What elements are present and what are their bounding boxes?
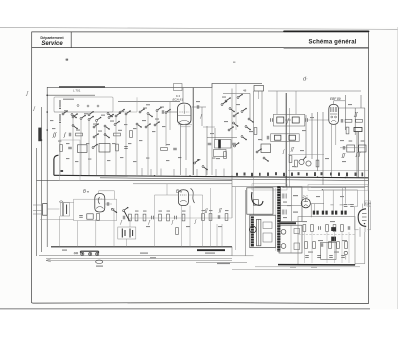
resistor R16	[43, 204, 48, 216]
contact S9b	[202, 166, 208, 171]
resistor R3	[60, 145, 63, 152]
capacitor C34	[329, 256, 333, 258]
switch lever K1	[59, 100, 61, 109]
wire V6 pins	[360, 204, 365, 237]
wire vert 236	[235, 84, 237, 130]
capacitor C28	[350, 205, 354, 207]
fuse F1	[281, 229, 286, 234]
selector rect2	[294, 243, 300, 250]
resistor R35	[337, 242, 340, 249]
motor windings right	[257, 219, 261, 246]
tube V6 envelope	[358, 209, 366, 227]
fuse F2	[281, 244, 286, 249]
tube V4 bracket	[191, 189, 195, 204]
transformer T5 primary dark	[331, 227, 336, 231]
node psu	[322, 189, 323, 190]
T4 winding ticks	[282, 194, 286, 215]
wire sw verticals left	[60, 115, 126, 175]
tick leads above bus	[142, 168, 224, 176]
capacitor C36 box	[61, 203, 70, 217]
wire heater	[311, 204, 352, 218]
wire vert 253.5b	[253, 160, 255, 215]
module box A1	[74, 199, 117, 220]
electrolytic bank box	[118, 227, 136, 239]
padder block	[261, 144, 271, 153]
resistor R32	[305, 242, 308, 249]
T4 label smudges	[283, 195, 298, 218]
contact S7f	[228, 126, 234, 131]
node F	[189, 175, 191, 177]
inner box line	[326, 242, 328, 259]
block frame	[298, 217, 355, 265]
wire V2 top	[334, 101, 345, 105]
node B	[46, 111, 48, 113]
border frame	[32, 32, 369, 304]
tube V6 grids	[362, 214, 367, 225]
choke CH2	[322, 211, 328, 215]
capacitor C18 electrolytic	[63, 203, 67, 217]
contact S5b	[104, 134, 110, 139]
tube V2 electrodes	[330, 107, 337, 122]
wire osc hline	[203, 126, 215, 128]
tube V1 envelope	[177, 103, 191, 125]
capacitor C24	[175, 216, 177, 220]
contact S7k	[248, 118, 254, 123]
capacitor C25	[218, 215, 220, 219]
capacitor C33	[317, 256, 321, 258]
coil L5 dark	[354, 128, 362, 132]
header right thick rule	[284, 30, 369, 32]
contact S7j	[234, 142, 240, 147]
node C	[46, 129, 48, 131]
resistor R1	[76, 133, 83, 136]
tiny marks mid	[166, 97, 262, 160]
capacitor C32	[305, 256, 309, 258]
svg-text:ʃʃ: ʃʃ	[354, 112, 358, 118]
wire top small box B1	[254, 86, 264, 92]
capacitor C11	[232, 143, 236, 145]
label box mid	[252, 184, 287, 190]
tube V3 cathode	[96, 197, 103, 209]
wire mid coupling	[99, 191, 130, 227]
box osc2	[214, 150, 227, 157]
pre-bus component row	[236, 172, 363, 176]
contact S2d	[114, 121, 120, 126]
wire block dash	[299, 234, 355, 236]
coil L9 dark	[38, 128, 41, 142]
socket J0	[74, 252, 78, 254]
selector divider	[290, 225, 292, 253]
V6 label box	[365, 201, 371, 206]
resistor R21	[159, 214, 162, 221]
resistor R6	[116, 144, 119, 151]
contact S8a	[123, 207, 129, 212]
wire osc v2	[211, 83, 213, 175]
tube V2 envelope	[329, 104, 339, 124]
resistor R37	[254, 128, 257, 135]
contact S10a	[256, 148, 262, 153]
motor circle	[249, 226, 256, 233]
resistor R7	[224, 152, 227, 159]
contact S4c	[154, 121, 160, 126]
contact S7l	[221, 101, 227, 106]
tiny marks right	[292, 104, 352, 167]
shield box	[60, 140, 81, 181]
wire det horiz	[340, 147, 365, 149]
node A	[46, 94, 48, 96]
capacitor C17	[343, 146, 345, 150]
top coil box	[174, 84, 183, 91]
T1 primary	[277, 117, 284, 123]
svg-text:Département: Département	[40, 36, 64, 40]
label row tiny marks	[64, 104, 164, 144]
node I	[317, 176, 319, 178]
resistor R19	[135, 214, 138, 221]
contact S7i	[233, 122, 239, 127]
resistor R14	[316, 160, 319, 167]
tube base lines	[178, 125, 192, 127]
svg-text:48: 48	[243, 89, 247, 93]
capacitor C13	[271, 118, 273, 122]
switch frame S1 top	[54, 97, 113, 112]
mains transformer T4 primary bar	[277, 186, 280, 251]
wire right edge	[355, 177, 365, 264]
motor terminal2	[263, 233, 272, 242]
page top edge	[0, 27, 398, 29]
capacitor C22	[130, 229, 133, 238]
capacitor C29	[319, 226, 321, 230]
wire osc vertical dark	[192, 88, 194, 175]
resistor R9	[345, 119, 352, 122]
transformer T5 secondary dark	[331, 237, 336, 242]
capacitor C14	[306, 118, 308, 122]
resistor R11	[347, 145, 355, 152]
svg-text:Schéma général: Schéma général	[308, 40, 356, 46]
connector bar	[81, 251, 99, 253]
input jack cluster	[33, 205, 42, 214]
volume pot P1	[299, 159, 304, 164]
pickup arm	[252, 192, 263, 205]
block top label box	[308, 185, 368, 191]
contact S9a	[194, 159, 200, 164]
speck	[233, 62, 235, 63]
pilot lamp LP1	[344, 251, 347, 254]
page bottom edge	[0, 308, 370, 310]
capacitor C9	[197, 105, 199, 109]
contact S1f	[115, 112, 121, 117]
contact S2c	[104, 125, 110, 130]
capacitor C35	[341, 256, 345, 258]
motor winding inner	[258, 219, 260, 246]
contact S5a	[93, 133, 99, 138]
label box mid smudge	[255, 186, 285, 187]
contact S3d	[165, 109, 171, 114]
capacitor C3	[68, 147, 72, 149]
selector box	[279, 225, 302, 253]
volume pot P2	[306, 161, 311, 166]
wire left vertical 2	[41, 107, 43, 252]
contact S0a	[62, 110, 68, 115]
contact S1g	[125, 110, 131, 115]
svg-text:Service: Service	[41, 41, 63, 47]
resistor R31	[341, 225, 344, 232]
osc cluster lines	[207, 126, 237, 175]
T1 arrows	[285, 118, 291, 125]
choke CH1	[313, 211, 319, 215]
wire det vertical pair	[357, 132, 359, 178]
T2 secondary	[289, 135, 295, 140]
contact S4b	[145, 123, 151, 128]
wire IF bus 2	[289, 108, 291, 187]
wire driver tops	[155, 184, 203, 195]
capacitor C30	[348, 226, 350, 230]
inner box B2	[321, 242, 336, 259]
svg-text:ʃʃ: ʃʃ	[341, 153, 345, 159]
capacitor C19	[107, 202, 109, 206]
tube V1 pins	[181, 88, 186, 175]
capacitor C23	[152, 216, 154, 220]
wire arrow line	[46, 259, 232, 262]
tube V4 envelope	[178, 190, 188, 206]
selector rect1	[294, 229, 300, 234]
psu tiny marks	[287, 196, 347, 268]
contact S1d	[96, 117, 102, 122]
wire below psu	[232, 268, 340, 270]
node J	[345, 177, 347, 179]
wire psu top	[282, 187, 345, 189]
socket J1	[81, 252, 84, 255]
resistor R25	[209, 214, 212, 221]
contact S11	[111, 208, 117, 213]
node psu2	[345, 187, 346, 188]
resistor R2	[114, 133, 121, 136]
pickup box P	[247, 188, 273, 214]
bus ground light	[255, 266, 360, 268]
resistor R18	[97, 213, 100, 220]
resistor R10	[356, 119, 363, 122]
capacitor C27	[344, 205, 348, 207]
wire av lines	[288, 155, 368, 171]
socket J2	[89, 252, 92, 255]
contact S1a	[72, 113, 78, 118]
contact S7d	[241, 108, 247, 113]
capacitor C10	[208, 143, 212, 145]
wire left lower vertical	[36, 148, 38, 256]
wire bottom bus	[51, 246, 232, 248]
label smudge	[217, 263, 230, 264]
svg-text:L 701: L 701	[73, 89, 81, 93]
capacitor C38 tick	[61, 170, 64, 172]
box osc	[215, 140, 232, 149]
T4 core line	[275, 188, 277, 251]
wire IF bus dark	[285, 93, 287, 187]
wire audio in	[40, 203, 74, 220]
wire vert 235.5	[235, 187, 237, 250]
wire antenna left vertical	[46, 87, 48, 247]
contact S0e	[119, 109, 125, 114]
wire osc coupling	[192, 107, 207, 126]
wire bottom line2	[39, 255, 232, 257]
svg-text:ʃ ʃ: ʃ ʃ	[355, 152, 361, 158]
wire osc top	[223, 94, 250, 121]
resistor R15	[295, 160, 298, 167]
bus right mid	[232, 186, 368, 188]
capacitor C8	[162, 110, 164, 114]
choke CH4	[341, 211, 347, 215]
contact S7a	[225, 97, 231, 102]
resistor R40	[346, 127, 349, 134]
coil L3 dark	[218, 140, 221, 149]
tube V1 grids	[178, 105, 191, 123]
svg-text:d·: d·	[303, 77, 308, 83]
resistor R23	[182, 214, 185, 221]
contact S2b	[93, 123, 99, 128]
header bottom rule	[32, 47, 369, 49]
capacitor C12	[173, 148, 177, 150]
resistor R38	[176, 228, 179, 235]
node H	[285, 176, 287, 178]
wire link1	[232, 255, 254, 257]
wire driver row	[130, 217, 232, 219]
wire sw verticals right	[137, 102, 170, 175]
transformer T3 core bar	[197, 249, 225, 251]
resistor R17	[87, 214, 93, 219]
wire vert 245.5	[245, 190, 247, 256]
tube V4 grids	[180, 195, 187, 202]
capacitor C26 oval	[96, 260, 103, 263]
node D	[41, 139, 43, 141]
trimmer C2	[130, 131, 133, 138]
T2 primary	[275, 135, 281, 140]
coil L7	[59, 201, 63, 202]
secteur dark bar	[279, 222, 296, 224]
contact S4a	[136, 123, 142, 128]
wire top feed horizontal	[47, 83, 262, 87]
rectifier V5	[301, 199, 310, 208]
resistor R24	[202, 214, 205, 221]
pickup head	[253, 200, 258, 206]
wire top right horiz	[268, 91, 365, 108]
capacitor C37	[123, 216, 125, 220]
svg-text:ECH 81: ECH 81	[173, 97, 184, 101]
resistor R8	[161, 148, 168, 151]
wire link2	[196, 261, 247, 263]
contact S7c	[233, 112, 239, 117]
resistor R28	[311, 225, 314, 232]
bottom tiny labels	[62, 250, 215, 267]
switch lever S8	[124, 212, 129, 221]
thick feed segment	[59, 86, 105, 88]
pot P1 wiper	[303, 157, 306, 161]
wire driver verticals	[155, 188, 223, 247]
contact S7b	[229, 108, 235, 113]
contact S3c	[156, 107, 162, 112]
contact S3a	[139, 108, 145, 113]
T4 box dividers	[281, 187, 302, 222]
motor box M	[250, 215, 276, 247]
wire T1 to V2	[259, 91, 329, 120]
socket J3	[96, 252, 99, 255]
resistor R34	[329, 242, 332, 249]
main bus B+	[54, 175, 368, 178]
bus third	[37, 180, 233, 182]
T4 secondary box	[281, 187, 302, 222]
capacitor C20	[79, 216, 83, 218]
wire V2 pins down	[332, 124, 336, 177]
small parts row	[50, 120, 215, 162]
wire v 262	[261, 91, 263, 141]
det ticks	[349, 141, 365, 142]
capacitor C15	[267, 136, 269, 140]
resistor R12	[358, 145, 366, 152]
resistor R22	[167, 214, 170, 221]
contact S2a	[72, 125, 78, 130]
bus hook	[54, 155, 59, 175]
wire vert 232	[231, 89, 233, 256]
capacitor C4	[124, 147, 128, 149]
page right edge	[397, 27, 399, 309]
wire bottom line3	[46, 258, 232, 260]
bus second	[100, 178, 368, 181]
svg-text:B w: B w	[83, 189, 90, 194]
contact S7h	[237, 94, 243, 99]
resistor R4	[78, 145, 88, 153]
resistor R33	[313, 242, 316, 249]
resistor R13	[289, 156, 292, 163]
node E	[154, 175, 156, 177]
contact S0b	[71, 114, 77, 119]
wire psu verts	[315, 187, 358, 211]
contact S1b	[80, 115, 86, 120]
block label smudge	[311, 187, 365, 188]
bus fourth	[133, 183, 232, 185]
capacitor C21	[122, 229, 125, 238]
contact S1c	[88, 116, 94, 121]
contact S10b	[263, 157, 269, 162]
output tube bracket	[355, 206, 371, 230]
wire left step	[47, 94, 95, 96]
contact S7e	[245, 126, 251, 131]
resistor R5	[99, 144, 110, 153]
motor terminals	[263, 222, 272, 229]
contact S3b	[147, 113, 153, 118]
pilot circles	[77, 105, 99, 108]
bus ground dark	[278, 264, 355, 266]
wire mid horizontal upper	[118, 101, 180, 103]
contact S0d	[107, 113, 113, 118]
switch lever K2	[59, 114, 61, 123]
wire grid left cap	[165, 111, 177, 113]
motor winding bar	[251, 216, 254, 246]
resistor R20	[143, 214, 146, 221]
switch frame S1 bottom	[54, 97, 137, 112]
capacitor C16	[341, 119, 343, 123]
contact S6	[92, 144, 98, 149]
contact S0c	[88, 111, 94, 116]
wire right verticals	[306, 95, 365, 185]
capacitor C1	[69, 133, 71, 137]
IF can T2	[271, 134, 300, 142]
V5 plates	[304, 199, 308, 206]
title box divider	[70, 32, 72, 48]
wire v 253	[253, 91, 255, 160]
choke CH3	[331, 211, 337, 215]
wire audio verticals	[59, 208, 126, 247]
IF can T1	[273, 114, 304, 126]
resistor R39	[129, 214, 132, 221]
wire IF risers	[277, 91, 296, 114]
resistor R27	[303, 225, 306, 232]
